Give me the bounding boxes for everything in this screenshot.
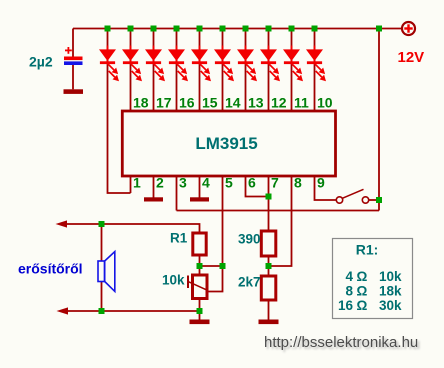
wire: R390 to R2k7 link (268, 256, 270, 276)
wire: LED D7 column (pin 13) (245, 29, 247, 112)
wire: LED D1 column down to pin1 (108, 29, 131, 194)
wire: pin8 down and left to R390/R2k7 junction (269, 176, 292, 266)
capacitor C1 plates (64, 57, 83, 66)
svg-text:10k: 10k (162, 273, 185, 288)
wire: LED D9 column (pin 11) (291, 29, 293, 112)
wire: pin1 stub (130, 176, 132, 193)
svg-text:18: 18 (133, 95, 149, 111)
ground: pin2 (144, 197, 163, 201)
ground: capacitor (64, 89, 84, 94)
wire: LED D4 column (pin 16) (176, 29, 178, 112)
svg-text:2: 2 (156, 175, 164, 191)
svg-text:12: 12 (271, 95, 287, 111)
svg-text:3: 3 (179, 175, 187, 191)
potentiometer 10k (188, 275, 208, 299)
wire: junction link pin5 column to R1/pot junction (200, 265, 223, 267)
wire: pin9 to switch (315, 176, 337, 200)
svg-text:http://bsselektronika.hu: http://bsselektronika.hu (264, 334, 418, 351)
junction: switch to 12V vertical (376, 197, 382, 203)
svg-text:LM3915: LM3915 (195, 134, 257, 153)
svg-text:Ω: Ω (357, 284, 368, 299)
junction: rail at 12V drop (376, 26, 382, 32)
junction: rail at D6 (220, 26, 226, 32)
junction: speaker bottom (99, 308, 105, 314)
junction: rail at D10 (312, 26, 318, 32)
wire: R1 bottom to pot top (199, 255, 201, 275)
wire: LED D6 column (pin 14) (222, 29, 224, 112)
ground: R2k7 (259, 320, 279, 325)
svg-text:13: 13 (248, 95, 264, 111)
label: table row 16 ohm 30k (338, 298, 402, 313)
svg-text:5: 5 (225, 175, 233, 191)
resistor R2k7 (261, 276, 276, 300)
svg-text:17: 17 (156, 95, 172, 111)
junction: rail at D2 (128, 26, 134, 32)
LED D10 (306, 46, 326, 82)
wire: LED D10 column (pin 10) (314, 29, 316, 112)
svg-text:30k: 30k (379, 298, 402, 313)
LED D9 (283, 46, 303, 82)
wire: pin5 to R1/pot junction (222, 176, 224, 266)
table: R1 selection box (333, 239, 413, 319)
junction: pin5 column node (220, 263, 226, 269)
LED D3 (145, 46, 165, 82)
junction: rail at D1 (105, 26, 111, 32)
svg-text:390: 390 (238, 232, 261, 247)
wire: switch to 12V vertical (369, 199, 379, 201)
svg-text:2µ2: 2µ2 (29, 54, 53, 70)
svg-text:erősítőről: erősítőről (18, 261, 83, 277)
wire: speaker top lead (101, 224, 103, 261)
power terminal +12V (402, 22, 415, 35)
ground: pot 10k (190, 320, 210, 325)
LED D5 (191, 46, 211, 82)
svg-text:10: 10 (317, 95, 333, 111)
svg-text:1: 1 (133, 175, 141, 191)
svg-text:4: 4 (202, 175, 210, 191)
wire: pin6 over to pin7 (246, 176, 269, 197)
LED D2 (122, 46, 142, 82)
svg-text:18k: 18k (379, 284, 402, 299)
svg-text:15: 15 (202, 95, 218, 111)
wire: pin4 stub to ground (199, 176, 201, 198)
junction: pot bottom / ground (197, 308, 203, 314)
junction: rail at D9 (289, 26, 295, 32)
wire: capacitor top stub (72, 29, 74, 57)
svg-text:11: 11 (294, 95, 309, 111)
resistor R1 (193, 233, 206, 255)
svg-text:Ω: Ω (357, 298, 368, 313)
label: C1 polarity + (65, 47, 72, 54)
wire: pot wiper return to pin5 column (207, 266, 223, 292)
svg-text:14: 14 (225, 95, 241, 111)
wire: pin3 stub (176, 176, 178, 211)
junction: rail at D8 (266, 26, 272, 32)
wire: pot ground stub (199, 311, 201, 320)
wire: upper input line (speaker top / R1 top), net A (60, 224, 200, 233)
wire: speaker bottom lead (101, 282, 103, 312)
LED D1 (99, 46, 119, 82)
svg-text:6: 6 (248, 175, 256, 191)
label: table row 8 ohm 18k (345, 284, 402, 299)
wire: +12V top rail (73, 28, 402, 30)
svg-text:8: 8 (294, 175, 302, 191)
svg-text:2k7: 2k7 (238, 275, 261, 290)
wire: LED D3 column (pin 17) (153, 29, 155, 112)
svg-text:8: 8 (345, 284, 353, 299)
IC U1 LM3915 body (122, 111, 335, 176)
wire: LED D5 column (pin 15) (199, 29, 201, 112)
switch S1 (336, 189, 368, 203)
svg-text:4: 4 (345, 269, 353, 284)
LED D6 (214, 46, 234, 82)
LED D4 (168, 46, 188, 82)
label: table row 4 ohm 10k (345, 269, 402, 284)
svg-text:16: 16 (338, 298, 354, 313)
svg-text:Ω: Ω (357, 269, 368, 284)
svg-text:9: 9 (317, 175, 325, 191)
junction: rail at D3 (151, 26, 157, 32)
ground: pin4 (190, 197, 209, 201)
wire: pot bottom to lower input line (199, 299, 201, 312)
svg-text:12V: 12V (398, 49, 425, 66)
wire: pin7 down to R390 (268, 176, 270, 231)
svg-text:7: 7 (271, 175, 279, 191)
junction: rail at D5 (197, 26, 203, 32)
junction: pin6/pin7 (266, 194, 272, 200)
wire: capacitor ground stub (72, 65, 74, 89)
wire: pin3 V+ horizontal to 12V vertical (177, 210, 380, 212)
svg-text:R1: R1 (170, 231, 188, 246)
wire: LED D2 column (pin 18) (130, 29, 132, 112)
svg-text:16: 16 (179, 95, 195, 111)
junction: rail at D7 (243, 26, 249, 32)
svg-text:10k: 10k (379, 269, 402, 284)
junction: R1/pot node (197, 263, 203, 269)
arrow: upper input line left arrowhead (56, 220, 68, 227)
arrow: lower input line left arrowhead (57, 307, 69, 314)
LED D8 (260, 46, 280, 82)
wire: R2k7 ground stub (268, 300, 270, 320)
svg-text:R1:: R1: (356, 242, 379, 258)
resistor R390 (261, 231, 276, 256)
wire: 12V feed vertical (rail to pin3 net) (378, 29, 380, 211)
wire: lower input line (speaker bottom / pot bottom), net B (61, 310, 200, 312)
wire: LED D8 column (pin 12) (268, 29, 270, 112)
junction: rail at D4 (174, 26, 180, 32)
wire: pin2 stub to ground (153, 176, 155, 198)
speaker LS1 (98, 252, 115, 292)
junction: speaker top (99, 221, 105, 227)
LED D7 (237, 46, 257, 82)
junction: R390/R2k7 node (266, 263, 272, 269)
